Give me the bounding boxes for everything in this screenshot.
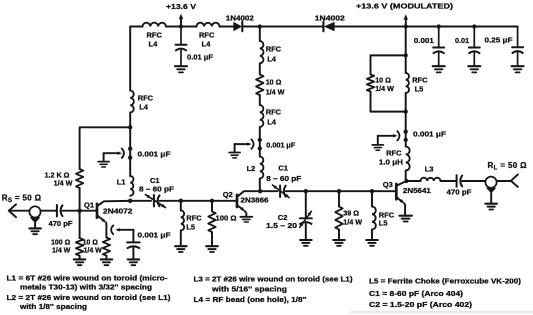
label RL = 50 Ohm [488,161,528,172]
svg-text:0.001 μF: 0.001 μF [413,130,446,139]
note L2 line 1 [7,293,172,302]
inductor RFC 1.0 uH [406,147,410,171]
svg-text:0.001 μF: 0.001 μF [138,231,171,240]
wire stage3 block to feedthrough [405,93,407,147]
inductor L2 [260,157,264,179]
svg-text:L4: L4 [149,40,159,49]
svg-text:39 Ω: 39 Ω [343,209,359,218]
label 100 Ohm (Q2) [216,214,237,223]
label RFC (top-left choke) [147,30,163,39]
svg-text:0.01 μF: 0.01 μF [187,53,213,62]
svg-text:RFC: RFC [266,44,282,53]
label RS = 50 Ohm [2,193,42,204]
wire input arrow to generator [9,210,30,212]
wire stage2 choke to resistor [259,63,261,74]
label 8 - 60 pF (interstage 2) [266,174,302,183]
inductor RFC L4 (top-left choke) [143,23,167,27]
node RFC L5 junction (Q3 base) [370,189,374,193]
label RFC (stage3 choke) [412,75,428,84]
svg-text:L4: L4 [267,118,277,127]
label 10 Ohm (stage2) [266,77,282,86]
label 1.2 K Ohm [45,170,70,179]
ground (Q3 base choke) [366,240,378,246]
svg-text:metals T30-13) with 3/32'' spa: metals T30-13) with 3/32'' spacing [20,282,152,291]
ground (rail 0.01 cap) [468,66,480,72]
label RFC (Q3 base choke) [379,210,395,219]
trimmer capacitor C1 8-60 pF (interstage 1) [145,195,165,208]
resistor 100 ohm 1/4W (Q1 base) [76,211,83,259]
wire 470pF to load [462,180,485,182]
diode 1N4002 (CR2, pointing left) [323,22,334,32]
label RFC (stage1 vertical choke) [138,93,154,102]
input arrow (source side) [9,204,16,217]
inductor RFC L4 (second top choke) [197,23,220,27]
label 0.001 (rail cap) [414,36,434,45]
label RFC (second top choke) [199,30,215,39]
label 0.25 uF [485,36,514,45]
node parallel block bottom [404,109,408,113]
svg-text:1.5 – 20: 1.5 – 20 [266,221,297,230]
svg-text:L4: L4 [267,54,277,63]
svg-text:+13.6 V (MODULATED): +13.6 V (MODULATED) [356,2,454,11]
node 39 ohm junction [337,189,341,193]
inductor RFC L4 (stage2 upper choke) [260,41,264,63]
transistor Q2 collector lead [238,191,260,196]
label 2N3866 [241,196,269,205]
trimmer capacitor C1 8-60 pF (interstage 2) [273,185,290,198]
diode 1N4002 (CR1, pointing right) [233,22,242,32]
label 1/4 W (Q1 100) [52,247,71,254]
svg-text:RL = 50 Ω: RL = 50 Ω [488,161,528,172]
node decoupling cap 0.01 junction [472,24,476,28]
label 0.001 uF (stage3 feedthrough) [413,130,446,139]
inductor L1 [130,176,133,196]
svg-text:L5: L5 [379,219,388,228]
svg-text:10 Ω: 10 Ω [83,239,99,246]
power +13.6 V arrow [179,14,184,27]
label 1/4 W (Q1 10) [84,247,103,254]
resistor 39 ohm 1/4W [335,191,342,239]
svg-text:8 – 60 pF: 8 – 60 pF [139,185,175,194]
resistor 1.2K ohm 1/4W [76,169,83,188]
label 100 Ohm (Q1) [51,239,71,246]
transistor Q1 collector lead [98,201,130,206]
svg-text:100 Ω: 100 Ω [216,214,237,223]
wire stage3 feed from rail [405,27,407,74]
svg-text:L4: L4 [202,40,212,49]
svg-text:L3: L3 [425,165,434,174]
ground (0.01 uF cap) [175,66,187,72]
svg-text:RFC: RFC [186,214,202,223]
note L1 line 1 [7,273,169,282]
label L3 [425,165,434,174]
label 0.001 uF (Q1 emitter) [138,231,171,240]
wire rail diode CR1 to node [242,26,259,28]
svg-text:RFC: RFC [199,30,215,39]
transistor Q1 emitter lead [98,216,107,238]
label +13.6 V [166,2,196,11]
svg-text:RFC: RFC [386,149,402,158]
label 0.001 uF (stage1 feedthrough) [138,149,171,158]
svg-text:0.01: 0.01 [455,36,469,45]
svg-text:Q3: Q3 [383,180,393,189]
node decoupling cap 0.001 junction [437,24,441,28]
ground (Q2 base choke) [175,246,187,252]
ground (C2) [300,240,312,246]
svg-text:1/4 W: 1/4 W [54,179,73,188]
ground (stage1 feedthrough) [98,162,109,167]
svg-text:470 pF: 470 pF [447,188,473,197]
label RFC (stage2 lower choke) [266,108,282,117]
ground (Q3 emitter) [399,216,412,222]
ground (rail 0.001 cap) [433,66,445,72]
svg-text:Q2: Q2 [223,190,233,199]
node +13.6V modulated junction [404,24,408,28]
label 1N4002 (CR1) [226,13,254,22]
ground (39 ohm) [333,240,345,246]
label 39 Ohm [343,209,359,218]
label L4 (stage1 vertical choke) [139,103,149,112]
transistor Q2 emitter lead [238,206,247,216]
capacitor 0.01 (rail decoupling) [469,27,481,66]
svg-text:RFC: RFC [412,75,428,84]
node parallel block top [404,53,408,57]
resistor 10 ohm 1/4W (stage2 feed) [256,75,263,96]
label 8 - 60 pF (interstage 1) [139,185,175,194]
ground (load) [485,204,497,210]
wire C1 to Q2 base [160,200,236,202]
svg-text:1/4 W: 1/4 W [84,247,103,254]
svg-text:2N4072: 2N4072 [103,206,133,215]
ground (signal generator) [29,228,41,234]
wire Q3 collector to L3 [407,180,421,182]
wire stage1 feed from rail [129,27,131,91]
wire stage2 resistor to lower choke [259,95,261,105]
svg-text:8 – 60 pF: 8 – 60 pF [266,174,302,183]
capacitor 0.25 uF (rail decoupling) [512,27,524,66]
wire rail node to diode CR2 [260,26,324,28]
svg-text:L1: L1 [117,177,126,186]
svg-text:RS = 50 Ω: RS = 50 Ω [2,193,42,204]
svg-text:C1: C1 [150,176,160,185]
label 1/4 W (1.2K) [54,179,73,188]
scan artifact streak [350,311,533,314]
label L2 [247,164,256,173]
svg-text:+13.6 V: +13.6 V [166,2,196,11]
svg-text:0.001 μF: 0.001 μF [266,140,295,149]
svg-text:1N4002: 1N4002 [226,13,254,22]
label L5 (Q3 base choke) [379,219,388,228]
svg-text:1/4 W: 1/4 W [266,87,285,96]
label RFC (Q2 base choke) [186,214,202,223]
svg-text:C2 = 1.5-20 pF (Arco 402): C2 = 1.5-20 pF (Arco 402) [369,300,473,309]
note L5 line [369,277,522,286]
inductor RFC L4 (stage1 vertical choke) [130,91,134,113]
svg-text:RFC: RFC [266,108,282,117]
svg-text:L3 = 2T #26 wire wound on toro: L3 = 2T #26 wire wound on toroid (see L1… [194,275,354,284]
note C2 line [369,300,473,309]
svg-text:L4 = RF bead (one hole), 1/8'': L4 = RF bead (one hole), 1/8'' [194,295,307,304]
svg-text:L1 = 6T #26 wire wound on toro: L1 = 6T #26 wire wound on toroid (micro- [7,273,169,282]
transistor Q1 2N4072 base bar [96,204,99,218]
feedthrough capacitor 0.001 uF (stage1 collector feed) [104,147,133,161]
svg-text:10 Ω: 10 Ω [266,77,282,86]
ground (Q1 emitter bypass cap) [128,259,140,265]
transistor Q3 collector lead [397,181,406,185]
label 1.0 uH [379,158,403,167]
capacitor 0.001 (rail decoupling) [433,27,445,66]
label 2N4072 [103,206,133,215]
transistor Q2 2N3866 base bar [236,195,239,207]
svg-text:L5 = Ferrite Choke (Ferroxcube: L5 = Ferrite Choke (Ferroxcube VK-200) [369,277,522,286]
node RFC L5 junction (Q2 base) [179,199,183,203]
ground (stage2 feedthrough) [229,153,240,158]
svg-text:0.25 μF: 0.25 μF [485,36,514,45]
svg-text:RFC: RFC [147,30,163,39]
label L4 (stage2 upper choke) [267,54,277,63]
inductor L3 [421,178,441,181]
resistor 100 ohm (Q2 base) [208,201,215,246]
feedthrough capacitor 0.001 uF (stage3) [378,130,408,145]
label 1/4 W (39 ohm) [343,218,362,227]
signal generator circle (RS source) [29,206,40,217]
svg-text:1/4 W: 1/4 W [343,218,362,227]
inductor RFC L5 (stage3, parallel with 10 ohm) [406,73,409,93]
ground (stage3 feedthrough) [372,145,383,150]
node Q3 collector junction [404,179,408,183]
node +13.6V junction [179,24,183,28]
resistor 10 ohm 1/4W (Q1 emitter) [103,238,110,259]
svg-text:0.001 μF: 0.001 μF [138,149,171,158]
svg-text:C1 = 8-60 pF (Arco 404): C1 = 8-60 pF (Arco 404) [369,289,464,298]
wire stage2 feed from rail [259,27,261,42]
wire C1 to Q3 base [286,190,395,192]
wire rail into diode CR1 [220,26,234,28]
svg-text:L2: L2 [247,164,256,173]
label C1 (interstage 2) [278,163,288,172]
load circle RL [485,177,496,188]
wire stage1 choke to branch node [129,113,131,177]
wire parallel block bottom connector [371,92,406,112]
label 1/4 W (stage2) [266,87,285,96]
note C1 line [369,289,464,298]
label +13.6 V (MODULATED) [356,2,454,11]
svg-text:L5: L5 [415,84,424,93]
label RFC (stage2 upper choke) [266,44,282,53]
svg-text:L5: L5 [186,223,195,232]
label L1 [117,177,126,186]
svg-text:1N4002: 1N4002 [315,14,345,23]
label 1.5 - 20 [266,221,297,230]
wire RFC 1.0uH to Q3 collector node [405,171,407,182]
node Q2 bias feed junction [258,24,262,28]
trimmer capacitor C2 1.5-20 pF [299,191,312,239]
ground (Q1 10 ohm) [101,259,113,265]
wire Q1 collector to C1 trimmer [130,200,151,202]
note L3 line 1 [194,275,354,284]
wire Q2 collector to C1 trimmer (interstage 2) [260,190,277,192]
label Q1 [84,200,94,209]
ground (Q2 100 ohm) [206,246,218,252]
label RFC (1.0 uH choke) [386,149,402,158]
wire stage2 lower choke to feedthrough [259,127,261,157]
ground (Q2 emitter) [240,217,252,222]
wire generator to 470pF cap [41,210,57,212]
resistor 10 ohm 1/4W (stage3 parallel) [367,75,374,92]
label L5 (Q2 base choke) [186,223,195,232]
capacitor 470 pF (input coupling) [57,205,63,217]
note L3 line 2 [211,285,287,294]
label L4 (top-left choke) [149,40,159,49]
inductor RFC L4 (stage2 lower choke) [260,105,264,127]
svg-text:L2 = 2T #26 wire wound on toro: L2 = 2T #26 wire wound on toroid (see L1… [7,293,172,302]
svg-text:1/4 W: 1/4 W [52,247,71,254]
inductor RFC L5 (Q2 base choke) [181,201,184,246]
wire L2 to Q2 collector node [259,179,261,192]
wire rail modulated node to right end [406,26,518,28]
load down arrow to ground [486,188,497,203]
ground (rail 0.25 uF cap) [512,66,524,72]
label C2 [278,213,288,222]
node stage1 bias branch [128,125,132,129]
svg-text:with 1/8'' spacing: with 1/8'' spacing [19,302,87,311]
wire top supply rail left segment [130,26,142,28]
wire rail between L4 and +13.6V node [166,26,197,28]
label 0.01 (rail cap) [455,36,469,45]
wire 1.2K resistor to Q1 base node [79,188,81,211]
svg-text:C1: C1 [278,163,288,172]
power +13.6 V (MODULATED) arrow [404,14,409,26]
label 0.01 uF [187,53,213,62]
svg-text:L4: L4 [139,103,149,112]
wire 470pF to Q1 base [63,210,96,212]
ground (Q1 100 ohm) [74,259,86,265]
svg-text:2N5641: 2N5641 [403,186,431,195]
capacitor 0.01 uF (input stage bypass) [175,27,187,66]
svg-text:100 Ω: 100 Ω [51,239,71,246]
svg-text:1/4 W: 1/4 W [375,84,394,93]
note L1 line 2 [20,282,152,291]
label 10 Ohm (stage3) [375,75,391,84]
capacitor 470 pF (output coupling) [457,175,463,187]
wire branch to 1.2K resistor [80,127,131,169]
wire rail diode CR2 to modulated node [335,26,406,28]
note L4 line [194,295,307,304]
feedthrough emitter bypass arc (Q1) [111,225,133,235]
inductor RFC L5 (Q3 base choke) [372,191,376,239]
transistor Q3 2N5641 base bar [395,184,398,199]
label L5 (stage3 choke) [415,84,424,93]
label C1 (interstage 1) [150,176,160,185]
node 100 ohm junction (Q2 base) [210,199,214,203]
svg-text:2N3866: 2N3866 [241,196,269,205]
svg-text:1.0 μH: 1.0 μH [379,158,403,167]
generator down arrow to ground [30,217,41,227]
label 1/4 W (stage3) [375,84,394,93]
svg-text:RFC: RFC [138,93,154,102]
label 2N5641 [403,186,431,195]
svg-text:Q1: Q1 [84,200,94,209]
label Q2 [223,190,233,199]
transistor Q3 emitter lead [397,198,405,215]
label 470 pF (input) [49,219,74,228]
node Q2 collector junction [258,189,262,193]
label L4 (second top choke) [202,40,212,49]
wire L3 to 470pF cap [441,180,457,182]
capacitor 0.001 uF (Q1 emitter bypass) [127,230,140,259]
svg-text:with 5/16'' spacing: with 5/16'' spacing [211,285,287,294]
feedthrough capacitor 0.001 uF (stage2) [235,138,262,152]
node Q1 base junction [77,209,81,213]
wire load to output arrow [497,180,511,182]
label 10 Ohm (Q1) [83,239,99,246]
svg-text:0.001: 0.001 [414,36,434,45]
svg-text:470 pF: 470 pF [49,219,74,228]
output arrow [511,175,518,187]
label Q3 [383,180,393,189]
label L4 (stage2 lower choke) [267,118,277,127]
label 470 pF (output) [447,188,473,197]
wire parallel block top connector [371,55,406,74]
node C2 junction [304,189,308,193]
node Q1 collector junction [128,199,132,203]
label 1N4002 (CR2) [315,14,345,23]
note L2 line 2 [19,302,87,311]
label 0.001 uF (stage2 feedthrough) [266,140,295,149]
